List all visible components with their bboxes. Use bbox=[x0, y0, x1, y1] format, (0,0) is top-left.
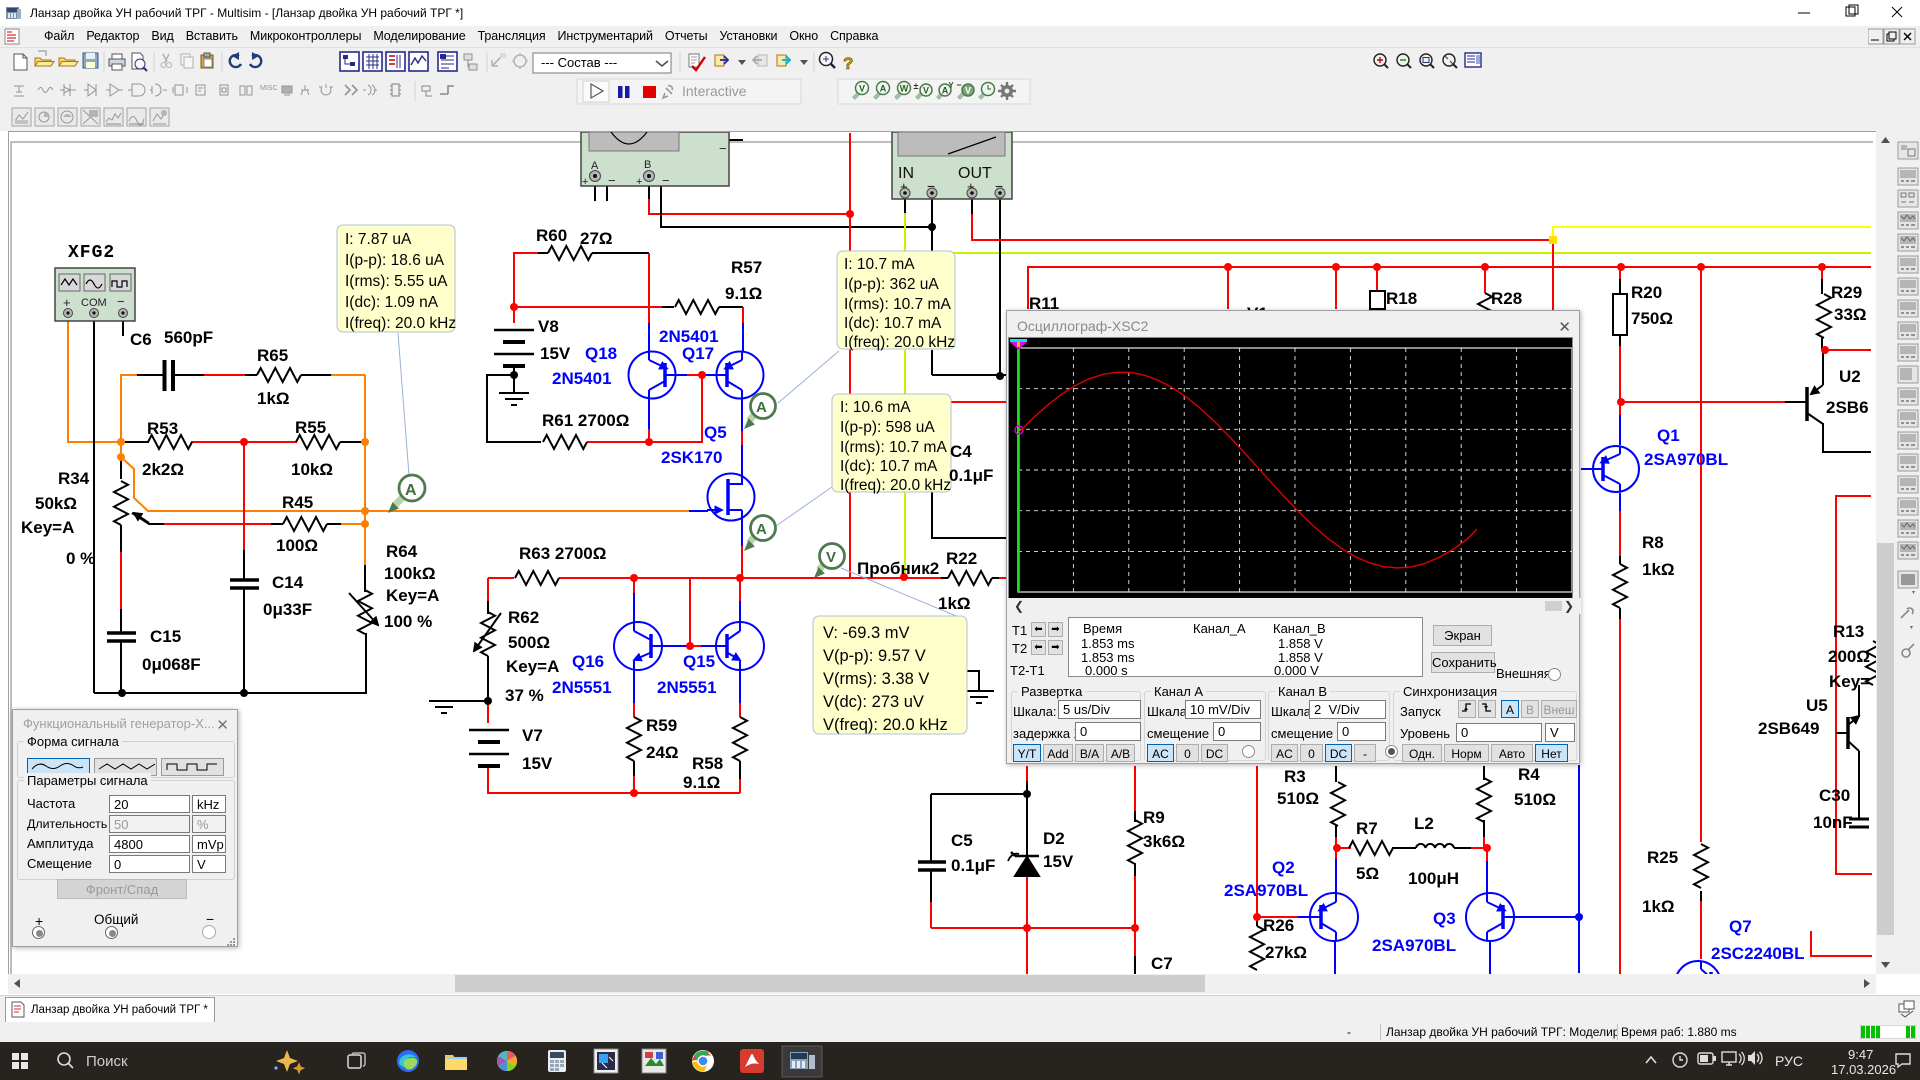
wire V8 node row bbox=[514, 306, 662, 308]
wire chartreuse IN+ bbox=[904, 213, 906, 577]
svg-text:1kΩ: 1kΩ bbox=[1642, 560, 1675, 579]
wire XSC A stubs bbox=[595, 186, 607, 201]
svg-text:C7: C7 bbox=[1151, 954, 1173, 973]
svg-text:9.1Ω: 9.1Ω bbox=[725, 284, 762, 303]
wire R29 red right bbox=[1825, 349, 1871, 351]
wire COM black bbox=[93, 319, 95, 693]
svg-text:Key=A: Key=A bbox=[21, 518, 74, 537]
jfet Q5 bbox=[708, 474, 755, 521]
resistor R58 vertical bbox=[733, 717, 747, 761]
wire V7 bottom rail bbox=[488, 767, 740, 793]
rheostat R64 bbox=[358, 590, 372, 634]
wire blue x1580 bbox=[1578, 765, 1580, 973]
wire base link Q18-Q17 bbox=[665, 374, 687, 376]
wire orange right loop vertical bbox=[364, 375, 366, 565]
svg-text:0μ068F: 0μ068F bbox=[142, 655, 201, 674]
resistor R26 vertical bbox=[1250, 926, 1264, 970]
svg-text:R18: R18 bbox=[1386, 289, 1417, 308]
svg-text:COM: COM bbox=[81, 297, 107, 309]
wire R61 to base node bbox=[587, 375, 702, 442]
svg-text:V: -69.3 mV: V: -69.3 mV bbox=[823, 624, 910, 642]
junction bbox=[1373, 263, 1381, 271]
svg-text:V8: V8 bbox=[538, 317, 559, 336]
svg-text:R55: R55 bbox=[295, 418, 326, 437]
wire stubs under y266 bbox=[1228, 267, 1485, 309]
svg-text:V: V bbox=[826, 549, 836, 566]
zener D2 bbox=[1015, 857, 1039, 876]
svg-text:1kΩ: 1kΩ bbox=[257, 389, 290, 408]
svg-text:U5: U5 bbox=[1806, 696, 1828, 715]
svg-text:2SC2240BL: 2SC2240BL bbox=[1711, 944, 1805, 963]
junction bbox=[1253, 913, 1261, 921]
svg-text:V: V bbox=[923, 86, 929, 96]
junction bbox=[698, 371, 706, 379]
svg-text:−: − bbox=[956, 80, 961, 90]
capacitor C15 bbox=[107, 633, 136, 641]
probe A on Q5 source bbox=[744, 516, 776, 552]
junction yellow net bbox=[1549, 236, 1557, 244]
svg-text:R65: R65 bbox=[257, 346, 288, 365]
svg-text:I(freq): 20.0 kHz: I(freq): 20.0 kHz bbox=[844, 334, 955, 351]
resistor R61 bbox=[543, 435, 587, 449]
resistor R55 bbox=[296, 435, 340, 449]
svg-text:A: A bbox=[405, 482, 417, 499]
svg-text:Q15: Q15 bbox=[683, 652, 715, 671]
labels black bbox=[21, 226, 1870, 973]
svg-text:510Ω: 510Ω bbox=[1514, 790, 1556, 809]
transistor Q3 bbox=[1466, 893, 1514, 941]
svg-text:100kΩ: 100kΩ bbox=[384, 564, 435, 583]
potentiometer R34 bbox=[114, 481, 128, 525]
wire base feed Q16Q15 bbox=[689, 578, 691, 646]
junction bbox=[846, 210, 854, 218]
svg-text:−: − bbox=[608, 173, 616, 188]
capacitor C30 clipped bbox=[1849, 819, 1869, 827]
svg-text:R22: R22 bbox=[946, 549, 977, 568]
svg-text:+: + bbox=[63, 295, 71, 310]
wire C30 column bbox=[1858, 751, 1860, 818]
edge bbox=[397, 1050, 419, 1072]
wire U2 base row bbox=[1621, 401, 1785, 403]
svg-text:R13: R13 bbox=[1833, 622, 1864, 641]
junction bbox=[1483, 844, 1491, 852]
svg-text:C14: C14 bbox=[272, 573, 304, 592]
svg-text:9:47: 9:47 bbox=[1848, 1047, 1873, 1062]
transistor Q18 bbox=[629, 352, 676, 399]
svg-text:Q16: Q16 bbox=[572, 652, 604, 671]
tooltip I 10.7mA bbox=[837, 251, 955, 351]
svg-text:Key=A: Key=A bbox=[506, 657, 559, 676]
resistor R60 bbox=[548, 246, 592, 260]
svg-text:R9: R9 bbox=[1143, 808, 1165, 827]
svg-text:0.1μF: 0.1μF bbox=[949, 466, 993, 485]
wire R7 L2 row bbox=[1337, 847, 1351, 849]
svg-text:Поиск: Поиск bbox=[86, 1053, 128, 1070]
wire chartreuse rail y252 bbox=[905, 252, 1871, 254]
wire OUT+ red rail y239 bbox=[971, 199, 973, 214]
svg-text:I(freq): 20.0 kHz: I(freq): 20.0 kHz bbox=[345, 315, 456, 332]
svg-text:R34: R34 bbox=[58, 469, 90, 488]
svg-text:R53: R53 bbox=[147, 419, 178, 438]
svg-text:2N5401: 2N5401 bbox=[552, 369, 612, 388]
svg-text:I(rms): 10.7 mA: I(rms): 10.7 mA bbox=[844, 296, 951, 313]
svg-text:OUT: OUT bbox=[958, 165, 992, 182]
svg-text:3k6Ω: 3k6Ω bbox=[1143, 832, 1185, 851]
svg-text:Y: Y bbox=[948, 81, 954, 90]
svg-text:500Ω: 500Ω bbox=[508, 633, 550, 652]
junction bbox=[630, 789, 638, 797]
junction bbox=[1697, 263, 1705, 271]
wire V7 ground link bbox=[444, 700, 488, 702]
svg-text:1kΩ: 1kΩ bbox=[938, 594, 971, 613]
svg-text:A: A bbox=[880, 84, 887, 94]
svg-text:R63 2700Ω: R63 2700Ω bbox=[519, 544, 606, 563]
resistor R65 bbox=[257, 368, 301, 382]
tooltip V -69.3mV bbox=[813, 616, 967, 734]
resistor R7 bbox=[1349, 841, 1393, 855]
junction bbox=[900, 573, 908, 581]
junction bbox=[1821, 346, 1829, 354]
svg-text:B: B bbox=[644, 159, 651, 171]
wire C4 red bbox=[949, 401, 1008, 403]
svg-text:V7: V7 bbox=[522, 726, 543, 745]
svg-text:37 %: 37 % bbox=[505, 686, 544, 705]
wire R53 row bbox=[121, 441, 149, 443]
svg-text:L2: L2 bbox=[1414, 814, 1434, 833]
wire red center vertical C14 bbox=[243, 442, 245, 550]
svg-text:10nF: 10nF bbox=[1813, 813, 1853, 832]
junction bbox=[928, 223, 936, 231]
svg-text:R25: R25 bbox=[1647, 848, 1678, 867]
svg-text:100 %: 100 % bbox=[384, 612, 432, 631]
resistor R28 clipped bbox=[1478, 293, 1492, 337]
resistor R53 bbox=[148, 435, 192, 449]
junction bbox=[484, 697, 492, 705]
svg-text:200Ω: 200Ω bbox=[1828, 647, 1870, 666]
oscilloscope window bbox=[1006, 310, 1580, 764]
tooltip I 10.6mA bbox=[832, 394, 951, 494]
resistor R29 vertical bbox=[1817, 294, 1831, 338]
svg-text:Q3: Q3 bbox=[1433, 909, 1456, 928]
design toolbox group bbox=[340, 52, 359, 71]
junction bbox=[1575, 913, 1583, 921]
svg-text:560pF: 560pF bbox=[164, 328, 213, 347]
probe V Пробник2 bbox=[814, 544, 845, 579]
svg-text:V: V bbox=[965, 86, 971, 96]
wire Q18 emitter bottom bbox=[648, 398, 650, 429]
instrument XFG2 icon bbox=[55, 268, 135, 321]
junction bbox=[645, 438, 653, 446]
svg-text:R8: R8 bbox=[1642, 533, 1664, 552]
wire C4 bottom bbox=[932, 492, 1008, 538]
svg-text:2SK170: 2SK170 bbox=[661, 448, 722, 467]
wire bottom right corner bbox=[1811, 931, 1872, 956]
tray bbox=[1646, 1057, 1656, 1063]
capacitor C14 bbox=[230, 580, 259, 588]
junction bbox=[240, 438, 248, 446]
capacitor C6 bbox=[165, 360, 174, 391]
svg-text:A: A bbox=[756, 521, 767, 538]
search bbox=[58, 1053, 70, 1065]
wire XSC B minus bbox=[661, 186, 932, 227]
resistor R9 vertical bbox=[1128, 820, 1142, 864]
instrument XDA (IN/OUT) icon bbox=[892, 132, 1012, 199]
transistors bbox=[614, 352, 1721, 1008]
svg-text:A: A bbox=[756, 399, 767, 416]
capacitor C5 bbox=[918, 862, 946, 870]
svg-text:I: 7.87 uA: I: 7.87 uA bbox=[345, 231, 412, 248]
battery V8 bbox=[494, 330, 534, 354]
wire red x1552 down to scope bbox=[1552, 240, 1554, 311]
ground C4 bbox=[964, 691, 994, 703]
wire pot bottom / C15 bbox=[120, 525, 122, 552]
svg-text:Q7: Q7 bbox=[1729, 917, 1752, 936]
svg-text:17.03.2026: 17.03.2026 bbox=[1831, 1062, 1896, 1077]
wire far right red loop bbox=[1836, 496, 1872, 874]
combo box bbox=[533, 53, 671, 73]
svg-text:R26: R26 bbox=[1263, 916, 1294, 935]
svg-text:+: + bbox=[636, 176, 642, 188]
svg-text:5Ω: 5Ω bbox=[1356, 864, 1379, 883]
svg-text:РУС: РУС bbox=[1775, 1053, 1803, 1069]
svg-text:15V: 15V bbox=[1043, 852, 1074, 871]
resistor R4 vertical bbox=[1477, 778, 1491, 822]
svg-text:2SA970BL: 2SA970BL bbox=[1224, 881, 1308, 900]
svg-text:I(rms): 5.55 uA: I(rms): 5.55 uA bbox=[345, 273, 448, 290]
ground V7 bbox=[429, 701, 459, 713]
resistor R20 box bbox=[1613, 294, 1627, 335]
wire Q3 collector emitter base bbox=[1486, 848, 1488, 861]
rheostat R62 bbox=[481, 612, 495, 656]
wire U5 connections bbox=[1836, 732, 1848, 734]
transistor U2 bbox=[1805, 387, 1809, 421]
wire C6 right leads bbox=[137, 374, 204, 376]
junction bbox=[1023, 924, 1031, 932]
wire minus stub bbox=[122, 319, 124, 336]
wire R4 column bbox=[1483, 766, 1485, 780]
svg-text:2SB6: 2SB6 bbox=[1826, 398, 1869, 417]
svg-text:R59: R59 bbox=[646, 716, 677, 735]
svg-text:XFG2: XFG2 bbox=[68, 243, 115, 263]
wire orange C6 branch bbox=[121, 375, 689, 511]
instrument XSC2 icon bbox=[581, 132, 729, 188]
svg-text:0μ33F: 0μ33F bbox=[263, 600, 312, 619]
svg-text:24Ω: 24Ω bbox=[646, 743, 679, 762]
wire Q5 source down bbox=[741, 519, 743, 546]
junction bbox=[630, 574, 638, 582]
svg-text:2N5551: 2N5551 bbox=[552, 678, 612, 697]
svg-text:−: − bbox=[662, 173, 670, 188]
copilot sparkles bbox=[274, 1050, 305, 1074]
svg-text:R45: R45 bbox=[282, 493, 313, 512]
wire ground bus bbox=[94, 633, 366, 693]
svg-text:Q5: Q5 bbox=[704, 423, 727, 442]
svg-text:2N5551: 2N5551 bbox=[657, 678, 717, 697]
zoom toolbar top right bbox=[1368, 50, 1484, 76]
resistor R45 bbox=[283, 517, 327, 531]
svg-text:R61 2700Ω: R61 2700Ω bbox=[542, 411, 629, 430]
wire Q16 emitter R59 bbox=[633, 668, 635, 703]
task view bbox=[348, 1053, 365, 1068]
svg-text:R57: R57 bbox=[731, 258, 762, 277]
svg-text:2SA970BL: 2SA970BL bbox=[1372, 936, 1456, 955]
svg-text:D2: D2 bbox=[1043, 829, 1065, 848]
schematic canvas bbox=[8, 131, 1876, 974]
leader lines bbox=[398, 333, 961, 618]
wire XSC B plus bbox=[648, 186, 650, 199]
svg-text:MISC: MISC bbox=[260, 85, 278, 92]
junction bbox=[736, 574, 744, 582]
wire R57 right to Q17 bbox=[662, 306, 674, 308]
svg-text:R4: R4 bbox=[1518, 765, 1540, 784]
svg-text:V(rms): 3.38 V: V(rms): 3.38 V bbox=[823, 670, 929, 688]
svg-text:1kΩ: 1kΩ bbox=[1642, 897, 1675, 916]
rheostat R13 clipped bbox=[1866, 641, 1880, 685]
resistor R25 vertical bbox=[1694, 844, 1708, 888]
svg-text:Key=A: Key=A bbox=[386, 586, 439, 605]
svg-text:C4: C4 bbox=[950, 442, 972, 461]
svg-text:W: W bbox=[900, 84, 909, 94]
svg-text:Q18: Q18 bbox=[585, 344, 617, 363]
wire R45 row bbox=[132, 513, 164, 524]
junction bbox=[361, 507, 369, 515]
junction bbox=[1481, 263, 1489, 271]
svg-text:100μH: 100μH bbox=[1408, 869, 1459, 888]
transistor Q1 bbox=[1593, 446, 1639, 492]
svg-text:I: 10.7 mA: I: 10.7 mA bbox=[844, 256, 915, 273]
svg-text:I(dc): 10.7 mA: I(dc): 10.7 mA bbox=[840, 458, 938, 475]
svg-text:R58: R58 bbox=[692, 754, 723, 773]
svg-text:V(p-p): 9.57 V: V(p-p): 9.57 V bbox=[823, 647, 926, 665]
transistor U5 bbox=[1846, 717, 1850, 749]
svg-text:27Ω: 27Ω bbox=[580, 229, 613, 248]
svg-text:R28: R28 bbox=[1491, 289, 1522, 308]
svg-text:I: 10.6 mA: I: 10.6 mA bbox=[840, 399, 911, 416]
battery V7 bbox=[469, 730, 509, 754]
svg-text:R3: R3 bbox=[1284, 767, 1306, 786]
wire orange XFG+ bbox=[68, 319, 119, 442]
resistor R3 vertical bbox=[1331, 782, 1345, 826]
wire C4 top bbox=[932, 374, 1008, 376]
svg-text:R60: R60 bbox=[536, 226, 567, 245]
wire Q2 collector emitter bbox=[1335, 848, 1337, 859]
svg-text:0.1μF: 0.1μF bbox=[951, 856, 995, 875]
svg-text:2k2Ω: 2k2Ω bbox=[142, 460, 184, 479]
wire Q16 base link bbox=[655, 645, 687, 647]
svg-text:C5: C5 bbox=[951, 831, 973, 850]
junction bbox=[1617, 263, 1625, 271]
calc bbox=[548, 1050, 566, 1072]
svg-text:Interactive: Interactive bbox=[682, 83, 747, 99]
junction bbox=[1023, 790, 1031, 798]
wire Q17 emitter down to Q5 bbox=[741, 398, 743, 431]
component toolbar (grayed) bbox=[14, 84, 401, 96]
svg-text:Q17: Q17 bbox=[682, 344, 714, 363]
wire R9 column bbox=[1134, 766, 1136, 811]
resistor R22 bbox=[948, 571, 992, 585]
svg-text:−: − bbox=[719, 141, 727, 156]
svg-text:I(freq): 20.0 kHz: I(freq): 20.0 kHz bbox=[840, 477, 951, 494]
svg-text:±: ± bbox=[914, 81, 919, 91]
svg-text:R62: R62 bbox=[508, 608, 539, 627]
app colorful bbox=[642, 1049, 666, 1073]
resistor R63 bbox=[515, 571, 559, 585]
wire R64 top lead bbox=[364, 565, 366, 592]
tooltip I 7.87uA bbox=[337, 225, 456, 332]
function generator window bbox=[12, 709, 238, 947]
wire Q2 column bbox=[1256, 766, 1258, 917]
junction bbox=[1131, 924, 1139, 932]
wire R60 loop bbox=[514, 253, 538, 307]
probe A on R45 net bbox=[388, 475, 425, 513]
svg-text:Пробник2: Пробник2 bbox=[857, 559, 939, 578]
svg-text:27kΩ: 27kΩ bbox=[1265, 943, 1307, 962]
junction bbox=[361, 520, 369, 528]
junction bbox=[510, 371, 518, 379]
resistor R57 bbox=[675, 300, 719, 314]
junction bbox=[510, 303, 518, 311]
svg-text:−: − bbox=[117, 294, 125, 309]
junction bbox=[118, 689, 126, 697]
svg-text:I(dc): 10.7 mA: I(dc): 10.7 mA bbox=[844, 315, 942, 332]
wire red rail y266 bbox=[1028, 267, 1871, 309]
resistor R18 box clipped bbox=[1370, 291, 1385, 309]
svg-text:Key=: Key= bbox=[1829, 672, 1870, 691]
wire R25 column bbox=[1700, 891, 1702, 901]
svg-text:V(dc): 273 uV: V(dc): 273 uV bbox=[823, 693, 924, 711]
wire OUT- vertical bbox=[999, 199, 1001, 376]
resistor R59 vertical bbox=[627, 717, 641, 761]
wire Q16 collector bbox=[633, 578, 635, 593]
svg-text:R20: R20 bbox=[1631, 283, 1662, 302]
transistor Q16 bbox=[614, 622, 662, 670]
wire Q15 emitter R58 bbox=[739, 670, 741, 703]
svg-text:2SA970BL: 2SA970BL bbox=[1644, 450, 1728, 469]
svg-text:15V: 15V bbox=[540, 344, 571, 363]
svg-text:R7: R7 bbox=[1356, 819, 1378, 838]
transistor Q7 bbox=[1675, 961, 1721, 1007]
svg-text:C15: C15 bbox=[150, 627, 181, 646]
junction bbox=[1818, 263, 1826, 271]
wire R62 branch bbox=[487, 578, 489, 601]
svg-text:+: + bbox=[582, 176, 588, 188]
svg-text:Q2: Q2 bbox=[1272, 858, 1295, 877]
resistor R8 vertical bbox=[1613, 564, 1627, 608]
svg-text:I(p-p): 598 uA: I(p-p): 598 uA bbox=[840, 419, 935, 436]
multisim active bbox=[782, 1046, 822, 1077]
svg-text:I(p-p): 18.6 uA: I(p-p): 18.6 uA bbox=[345, 252, 445, 269]
svg-text:I(p-p): 362 uA: I(p-p): 362 uA bbox=[844, 276, 939, 293]
wire main mid rail y577 bbox=[488, 577, 514, 579]
wire IN- down bbox=[931, 199, 933, 375]
svg-text:15V: 15V bbox=[522, 754, 553, 773]
svg-text:9.1Ω: 9.1Ω bbox=[683, 773, 720, 792]
sheet border bbox=[11, 142, 1873, 974]
svg-text:100Ω: 100Ω bbox=[276, 536, 318, 555]
photos bbox=[497, 1051, 517, 1071]
svg-text:R29: R29 bbox=[1831, 283, 1862, 302]
explorer bbox=[445, 1055, 467, 1070]
wire Q15 collector bbox=[739, 578, 741, 601]
svg-text:C6: C6 bbox=[130, 330, 152, 349]
svg-text:V(freq): 20.0 kHz: V(freq): 20.0 kHz bbox=[823, 716, 948, 734]
simulation controls bbox=[577, 79, 801, 104]
svg-text:?: ? bbox=[843, 54, 853, 73]
app with blue select bbox=[594, 1049, 618, 1073]
svg-text:I(dc): 1.09 nA: I(dc): 1.09 nA bbox=[345, 294, 439, 311]
junction bbox=[240, 689, 248, 697]
svg-text:I(rms): 10.7 mA: I(rms): 10.7 mA bbox=[840, 439, 947, 456]
